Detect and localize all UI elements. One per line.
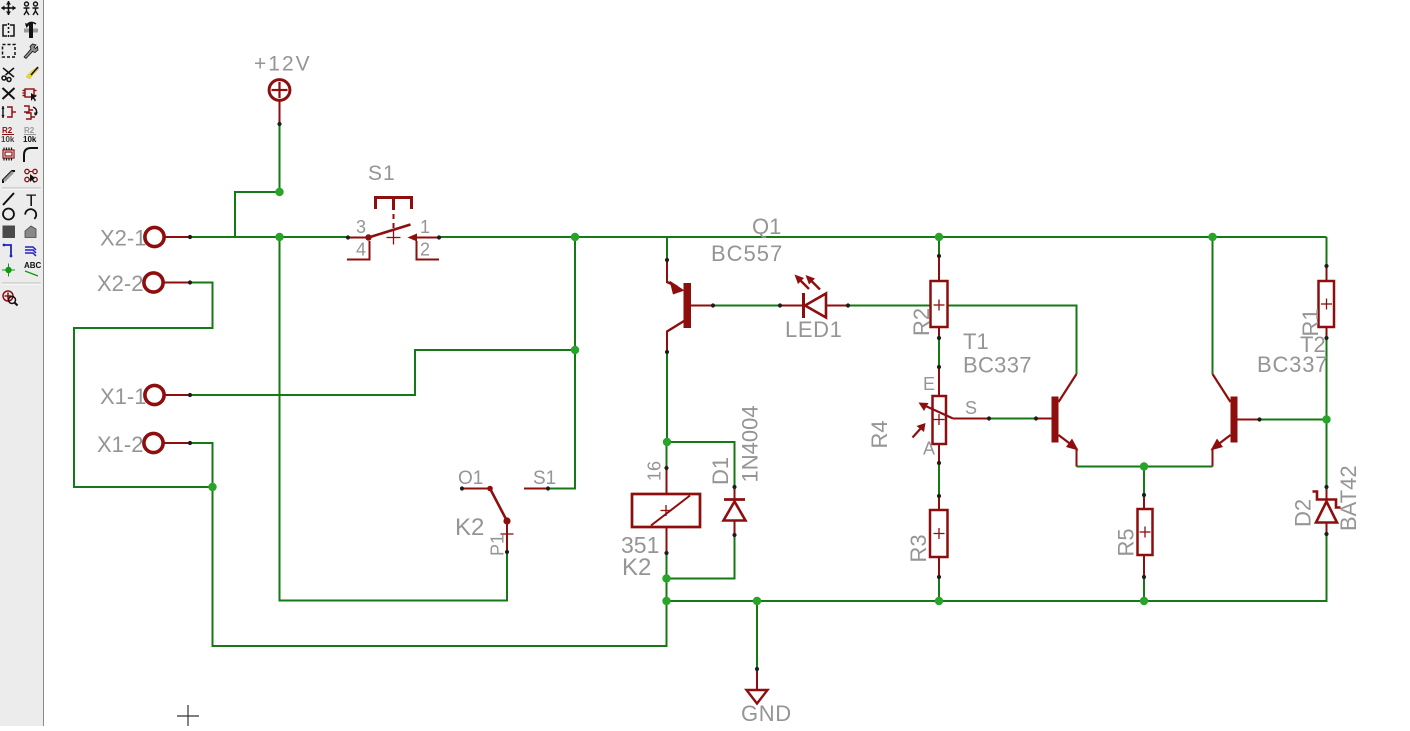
node bus-T2 junction	[1208, 233, 1216, 241]
node +12V junction	[275, 188, 283, 196]
svg-text:BAT42: BAT42	[1336, 465, 1361, 531]
icon miter	[24, 148, 38, 162]
potentiometer R4	[913, 367, 990, 463]
LED LED1	[780, 275, 848, 319]
wire X1-1 to S1 contact net	[190, 350, 575, 395]
icon label	[24, 261, 42, 276]
ground symbol	[747, 669, 768, 704]
svg-text:K2: K2	[455, 514, 484, 541]
wire R5 bottom	[1143, 577, 1145, 601]
wire R2 bottom to R4	[938, 338, 940, 367]
svg-text:K2: K2	[622, 554, 651, 581]
svg-text:D2: D2	[1291, 499, 1316, 527]
wire bottom bus	[667, 534, 1327, 601]
wire R3 bottom to bus	[938, 577, 940, 601]
svg-text:A: A	[923, 439, 935, 459]
node GND junction	[753, 597, 761, 605]
icon line	[3, 193, 14, 205]
wire T2 base to D2 net	[1261, 419, 1327, 421]
wire pot wiper to T1 base	[989, 418, 1036, 420]
svg-text:T: T	[26, 191, 36, 210]
icon rotate	[24, 22, 38, 38]
svg-text:Q1: Q1	[752, 214, 781, 239]
wire T2 collector to bus	[1212, 237, 1214, 374]
icon net	[3, 244, 13, 258]
svg-text:4: 4	[356, 240, 366, 260]
wire R2 top	[938, 237, 940, 256]
svg-text:ABC: ABC	[24, 261, 42, 270]
icon move	[1, 1, 16, 15]
svg-text:X1-1: X1-1	[100, 384, 146, 409]
wire relay bottom to D1 bottom	[667, 535, 735, 579]
wire X1-2 to junction	[190, 443, 213, 487]
resistor R5	[1138, 495, 1153, 577]
wire main bus left of switch	[190, 236, 348, 238]
svg-text:1: 1	[420, 217, 430, 237]
wire vertical net x279 down to relay contact P1	[280, 237, 508, 601]
icon gateswap	[24, 106, 38, 119]
wire X2-2 loop to X1-2 junction	[74, 283, 213, 488]
wire +12V down to junction	[279, 124, 281, 192]
wire relay pin16	[666, 442, 668, 468]
icon copy	[24, 2, 39, 15]
svg-text:S1: S1	[368, 162, 396, 185]
node R3 bus junction	[935, 597, 943, 605]
svg-text:+12V: +12V	[254, 53, 312, 76]
svg-text:1N4004: 1N4004	[738, 405, 763, 482]
svg-text:BC557: BC557	[711, 241, 783, 266]
svg-text:BC337: BC337	[963, 353, 1032, 378]
svg-text:S1: S1	[533, 468, 556, 489]
node X1-1/S1 junction	[571, 346, 579, 354]
svg-text:R2: R2	[24, 126, 35, 135]
svg-text:T1: T1	[963, 329, 989, 354]
diode D1 1N4004	[724, 487, 746, 535]
transistor T1 BC337	[1036, 374, 1079, 467]
svg-text:P1: P1	[488, 534, 508, 556]
icon arc	[25, 207, 38, 219]
icon wrench	[24, 44, 38, 59]
icon pinswap	[2, 106, 17, 118]
wire R1 bottom to D2	[1326, 338, 1328, 487]
icon add	[23, 89, 37, 102]
node X1-2 junction	[208, 483, 216, 491]
connector pad X1-2	[144, 433, 190, 452]
svg-text:16: 16	[645, 461, 665, 481]
svg-text:D1: D1	[708, 457, 733, 485]
toolbar panel	[0, 0, 43, 726]
node bottom bus relay junction	[662, 597, 670, 605]
connector pad X1-1	[145, 385, 190, 404]
supply +12V symbol	[269, 80, 290, 124]
wire R4 bottom to R3	[938, 463, 940, 496]
wire relay junction to D1 top	[667, 442, 735, 487]
icon rect	[3, 226, 16, 239]
sheet origin crosshair	[177, 705, 199, 727]
pin end dots	[188, 122, 1329, 671]
svg-text:X2-1: X2-1	[100, 226, 146, 251]
svg-text:X2-2: X2-2	[97, 271, 143, 296]
node relay top junction	[663, 438, 671, 446]
icon erc	[3, 291, 18, 306]
transistor Q1 BC557	[667, 260, 713, 352]
svg-text:BC337: BC337	[1257, 352, 1328, 377]
wire S1 contact vertical	[548, 237, 575, 489]
icon name	[1, 126, 15, 144]
resistor R1	[1319, 266, 1335, 338]
svg-text:LED1: LED1	[785, 317, 842, 342]
wire main bus right of switch	[439, 236, 1327, 238]
svg-text:GND: GND	[741, 701, 792, 726]
wire GND stub	[756, 601, 758, 669]
wire R5 top	[1143, 467, 1145, 496]
svg-text:X1-2: X1-2	[97, 432, 143, 457]
icon mirror	[3, 23, 14, 38]
wire relay pin1 to junction	[666, 553, 668, 579]
svg-text:R5: R5	[1114, 528, 1139, 556]
svg-text:R1: R1	[1298, 308, 1323, 336]
node bus-S1net junction	[571, 233, 579, 241]
node emitter rail junction	[1140, 462, 1148, 470]
icon miter2	[3, 171, 15, 183]
connector pad X2-1	[145, 227, 190, 246]
node D2 top junction	[1322, 415, 1330, 423]
icon smash	[3, 148, 14, 161]
node bus-R2 junction	[935, 233, 943, 241]
transistor T2 BC337	[1211, 374, 1260, 467]
icon circle	[3, 209, 14, 220]
svg-text:R4: R4	[867, 420, 892, 448]
node relay bottom junction	[662, 574, 670, 582]
wire R1 top	[1326, 237, 1328, 266]
icon paste	[26, 67, 39, 79]
svg-text:R2: R2	[909, 308, 934, 336]
svg-text:R3: R3	[906, 534, 931, 562]
separator 2	[2, 283, 41, 284]
node bus-X2-1 junction	[275, 233, 283, 241]
switch S1	[347, 198, 439, 260]
icon value	[23, 126, 37, 144]
wire Q1 base to LED1	[713, 305, 780, 307]
resistor R3	[930, 496, 948, 577]
icon polygon	[25, 226, 36, 238]
wire junction down to bottom bus	[213, 487, 667, 646]
icon junction	[2, 264, 15, 277]
svg-text:10k: 10k	[23, 135, 37, 144]
icon cut	[2, 68, 14, 82]
relay contact K2 (O1/S1/P1)	[462, 486, 548, 552]
wire T1 emitter rail to T2 emitter	[1077, 466, 1213, 468]
wire junction to X2-1	[190, 192, 280, 237]
connector pad X2-2	[144, 273, 190, 292]
diode D2 BAT42 (schottky)	[1313, 487, 1341, 534]
wire relay junction down to bus	[666, 579, 668, 602]
icon group select	[3, 45, 16, 58]
icon bus	[25, 247, 36, 256]
node R5 bus junction	[1140, 597, 1148, 605]
svg-text:10k: 10k	[1, 135, 15, 144]
separator	[2, 188, 41, 189]
resistor R2	[931, 256, 948, 338]
icon delete	[3, 88, 15, 99]
svg-text:S: S	[965, 398, 977, 418]
wire Q1 emitter to bus	[666, 237, 668, 260]
wire Q1 collector down to relay	[666, 352, 668, 442]
svg-text:R2: R2	[2, 126, 13, 135]
wire LED1 to T1 collector	[848, 306, 1077, 375]
icon replace	[25, 169, 37, 183]
svg-text:O1: O1	[458, 468, 483, 489]
svg-text:E: E	[923, 374, 935, 394]
svg-text:3: 3	[356, 217, 366, 237]
svg-text:2: 2	[420, 240, 430, 260]
relay coil K2	[632, 468, 700, 553]
